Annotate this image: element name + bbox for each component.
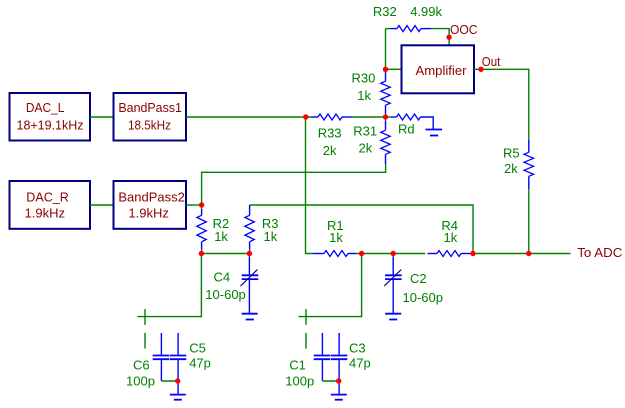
svg-text:1k: 1k: [329, 230, 343, 245]
wire R1 to C2 node: [356, 253, 425, 255]
wire R4 to ADC line: [471, 253, 571, 255]
resistor R30: [352, 69, 391, 117]
svg-text:100p: 100p: [285, 374, 314, 389]
svg-text:Out: Out: [482, 54, 501, 69]
svg-text:C5: C5: [189, 340, 206, 355]
junction C2 top: [391, 251, 396, 256]
junction amp left: [383, 67, 388, 72]
wire node up to R31 bottom: [202, 164, 386, 205]
svg-text:C6: C6: [133, 358, 150, 373]
svg-text:DAC_L: DAC_L: [26, 100, 65, 115]
svg-text:R30: R30: [352, 71, 376, 86]
svg-text:1k: 1k: [264, 229, 278, 244]
capacitor C6: [126, 333, 169, 389]
ground C2: [385, 314, 401, 320]
junction R2 bottom: [199, 251, 204, 256]
svg-text:1.9kHz: 1.9kHz: [128, 205, 168, 220]
svg-text:2k: 2k: [359, 140, 373, 155]
svg-text:4.99k: 4.99k: [410, 4, 442, 19]
resistor R2: [197, 205, 229, 254]
junction R5 bottom: [526, 251, 531, 256]
resistor R33: [311, 114, 352, 158]
op-amp block Amplifier: [402, 45, 475, 93]
wire R32 to OOC node: [431, 29, 449, 46]
resistor R1: [313, 218, 356, 257]
junction R1 right: [359, 251, 364, 256]
wire BandPass1 output to node: [186, 116, 311, 118]
junction OOC: [446, 35, 451, 40]
svg-text:10-60p: 10-60p: [205, 287, 245, 302]
junction BandPass2 node: [199, 202, 204, 207]
wire R2 bottom to R3 bottom: [201, 253, 249, 255]
capacitor C5: [170, 333, 211, 394]
wire BandPass2 output to node: [186, 204, 202, 206]
resistor R31: [353, 117, 390, 164]
wire C6 to C5 node: [161, 380, 177, 382]
ground C3: [331, 395, 347, 400]
wire R33 to node: [352, 116, 386, 118]
wire node down to R1 input: [306, 117, 314, 254]
svg-text:1k: 1k: [444, 230, 458, 245]
svg-text:18+19.1kHz: 18+19.1kHz: [17, 117, 84, 132]
svg-text:R32: R32: [373, 4, 397, 19]
svg-text:DAC_R: DAC_R: [26, 189, 69, 204]
wire R2 bottom down-left to port: [138, 254, 202, 317]
junction R3 C4: [247, 251, 252, 256]
svg-text:OOC: OOC: [450, 22, 478, 37]
capacitor C1: [285, 333, 330, 389]
svg-text:2k: 2k: [323, 143, 337, 158]
svg-text:47p: 47p: [189, 355, 211, 370]
block BandPass2: [114, 181, 187, 229]
resistor R32: [373, 4, 443, 32]
resistor R4: [428, 218, 472, 257]
resistor R3: [245, 205, 279, 249]
ground C4: [242, 314, 258, 320]
wire R1 node down-left to port: [299, 254, 362, 317]
svg-text:Amplifier: Amplifier: [416, 63, 468, 78]
wire C1 to C3 node: [322, 380, 338, 382]
junction C1 C3: [336, 378, 341, 383]
svg-text:R31: R31: [353, 123, 377, 138]
block DAC_R: [10, 181, 91, 229]
svg-text:2k: 2k: [504, 161, 518, 176]
capacitor C2 (trimmer): [384, 254, 443, 314]
port tick middle: [305, 309, 307, 325]
capacitor C4 (trimmer): [205, 254, 258, 314]
svg-text:BandPass1: BandPass1: [118, 100, 181, 115]
svg-text:Rd: Rd: [398, 121, 415, 136]
wire R3 bottom to node: [249, 249, 251, 254]
capacitor C3: [331, 333, 371, 394]
svg-text:C2: C2: [410, 271, 427, 286]
wire R5 down to ADC line: [528, 189, 530, 253]
svg-text:C4: C4: [214, 269, 231, 284]
wire DAC_L to BandPass1: [90, 116, 114, 118]
ground C5: [170, 395, 186, 400]
svg-text:R33: R33: [318, 125, 342, 140]
svg-text:10-60p: 10-60p: [403, 290, 443, 305]
block BandPass1: [114, 93, 187, 141]
junction R30 R31 R33 Rd: [383, 114, 388, 119]
wire DAC_R to BandPass2: [90, 204, 114, 206]
svg-text:47p: 47p: [349, 355, 371, 370]
svg-text:BandPass2: BandPass2: [118, 189, 184, 204]
junction Out: [478, 67, 483, 72]
block DAC_L: [10, 93, 91, 141]
wire amplifier left pin: [386, 68, 402, 70]
svg-text:1k: 1k: [214, 229, 228, 244]
svg-text:C1: C1: [289, 358, 306, 373]
ground Rd: [426, 130, 443, 136]
port tick left: [144, 309, 146, 325]
junction R4 right: [470, 251, 475, 256]
wire R4 node up and left to R3 top: [250, 205, 473, 254]
svg-text:1k: 1k: [357, 88, 371, 103]
wire amplifier output: [474, 69, 529, 139]
svg-text:1.9kHz: 1.9kHz: [25, 205, 65, 220]
resistor Rd: [386, 114, 434, 136]
resistor R5: [503, 139, 534, 189]
port dash middle: [305, 333, 307, 349]
svg-text:R5: R5: [503, 146, 520, 161]
port dash left: [144, 333, 146, 349]
svg-text:To ADC: To ADC: [577, 245, 622, 260]
svg-text:18.5kHz: 18.5kHz: [128, 117, 171, 132]
wire node up to R32: [385, 29, 387, 70]
junction C5 C6: [175, 378, 180, 383]
junction BandPass1 node: [303, 114, 308, 119]
svg-text:100p: 100p: [126, 374, 155, 389]
svg-text:C3: C3: [349, 340, 366, 355]
